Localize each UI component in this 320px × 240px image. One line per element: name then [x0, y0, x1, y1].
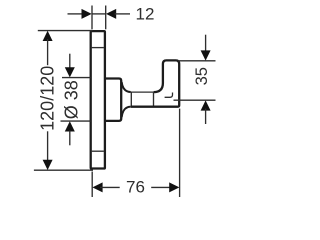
svg-text:12: 12	[136, 5, 155, 24]
svg-text:120/120: 120/120	[38, 66, 58, 131]
svg-text:76: 76	[126, 178, 145, 197]
svg-text:35: 35	[193, 67, 211, 85]
svg-text:Ø 38: Ø 38	[62, 80, 82, 119]
